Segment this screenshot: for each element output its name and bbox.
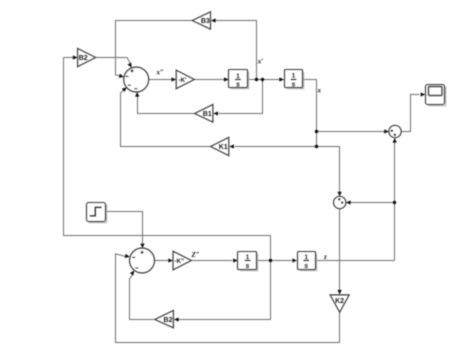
wire integrator I4 output z to the right: [315, 260, 394, 262]
wire gain B2 output to sum S1 top port: [96, 58, 131, 64]
gain B1: [195, 105, 213, 123]
wire B1 output to sum S1 bottom port: [138, 96, 195, 114]
arrowhead into lower gain B2: [174, 317, 179, 321]
arrowhead into gain B1: [213, 111, 218, 115]
sum S1 (upper large sum): [124, 67, 149, 92]
wire sum S3 output to scope: [401, 95, 419, 132]
wire sum S2 output to gain -K'': [155, 260, 169, 262]
arrowhead into sum S2 bottom-left port: [130, 269, 136, 275]
gain B3: [192, 12, 210, 29]
arrowhead into gain B3: [211, 18, 216, 22]
svg-text:1: 1: [304, 254, 308, 261]
sum S4 (small sum lower right): [334, 196, 346, 208]
svg-text:x′: x′: [257, 58, 264, 66]
gain B2 lower: [155, 310, 174, 327]
svg-text:-K': -K': [179, 78, 187, 84]
svg-text:B2: B2: [79, 55, 88, 62]
arrowhead into gain K2: [337, 290, 341, 295]
arrowhead into sum S2 left port: [125, 254, 131, 259]
arrowhead into integrator I3: [233, 258, 238, 262]
svg-text:x″: x″: [156, 69, 165, 77]
wire integrator I3 to integrator I4: [257, 260, 291, 262]
wire B3 output down to sum S1 left port: [116, 21, 193, 76]
svg-text:x: x: [317, 87, 322, 95]
arrowhead into sum S1 top port: [127, 63, 133, 69]
wire integrator I1 to integrator I2: [247, 79, 279, 81]
wire integrator I2 output x: [303, 80, 317, 147]
junction node on x vertical (to S3): [315, 130, 318, 133]
arrowhead into gain B2 upper: [73, 55, 78, 59]
wire x to sum S4 top port: [317, 147, 340, 192]
wire step output to sum S2 top port: [106, 212, 143, 245]
sum S2 (lower large sum): [130, 248, 155, 273]
step source block: [87, 203, 107, 223]
arrowhead into sum S3 left port: [384, 129, 389, 133]
scope block: [426, 85, 446, 106]
wire x to sum S3 left port: [317, 131, 385, 133]
arrowhead into sum S4 top port: [337, 192, 341, 197]
arrowhead into sum S1 left port: [119, 74, 125, 79]
wire z up to sum S3 bottom port: [394, 143, 396, 261]
wire sum S1 output to gain -K': [149, 79, 172, 81]
svg-text:s: s: [292, 81, 296, 88]
integrator I2 (upper second 1/s): [285, 70, 304, 89]
integrator I1 (upper first 1/s): [229, 70, 249, 89]
arrowhead into gain K1: [229, 144, 234, 148]
wire z' junction down to lower B2: [178, 236, 270, 320]
svg-text:B2: B2: [164, 317, 173, 324]
arrowhead into scope: [421, 92, 426, 96]
arrowhead into sum S1 bottom-left port: [122, 86, 128, 92]
arrowhead into integrator I4: [292, 258, 297, 262]
junction node after I1 (B1 tap): [261, 78, 264, 81]
svg-text:K2: K2: [335, 298, 344, 305]
svg-text:1: 1: [236, 73, 240, 80]
junction node z' between lower integrators: [269, 259, 272, 262]
svg-text:1: 1: [246, 254, 250, 261]
wire sum S4 output down to K2: [339, 209, 341, 291]
arrowhead into sum S1 bottom port: [135, 92, 139, 97]
gain -K'' (lower): [173, 251, 191, 270]
arrowhead into gain -K': [172, 77, 177, 81]
arrowhead into sum S2 top port: [140, 244, 144, 249]
integrator I4 (lower second 1/s): [298, 252, 317, 271]
arrowhead into sum S3 bottom port: [393, 138, 397, 143]
svg-text:s: s: [236, 82, 240, 89]
wire lower B2 output to sum S2 bottom-left port: [130, 275, 155, 320]
svg-text:Z″: Z″: [191, 251, 200, 259]
gain -K' (upper): [176, 70, 194, 89]
svg-text:B1: B1: [203, 111, 212, 118]
wire gain -K' to integrator I1: [194, 79, 224, 81]
svg-text:-K”: -K”: [175, 259, 184, 265]
wire B1 feedback: node down, left to B1: [219, 80, 263, 114]
svg-text:1: 1: [292, 73, 296, 80]
wire K2 output feedback to sum S2 left port: [116, 254, 340, 343]
arrowhead into integrator I1: [224, 77, 229, 81]
wire gain -K'' to integrator I3: [191, 260, 232, 262]
svg-text:B3: B3: [201, 18, 210, 25]
gain B2 upper: [78, 48, 96, 66]
gain K2 (points down): [330, 295, 349, 312]
wire B3 feedback: node x' up, left to B3: [215, 21, 256, 80]
arrowhead into gain -K'': [168, 258, 173, 262]
integrator I3 (lower first 1/s): [238, 252, 258, 271]
arrowhead into integrator I2: [279, 77, 284, 81]
junction node on z vertical (to S4): [393, 201, 396, 204]
wire sum S4 right input from z line: [350, 202, 395, 204]
wire K1 output to sum S1 bottom-left port: [121, 90, 211, 146]
gain K1: [211, 137, 229, 155]
svg-text:K1: K1: [219, 144, 228, 151]
sum S3 (small sum near scope): [389, 125, 401, 137]
wire K1 input from node x: [235, 146, 317, 148]
svg-text:z: z: [323, 253, 327, 261]
junction node after I1 (x' tap): [255, 78, 258, 81]
wire into gain B2 upper: [64, 57, 74, 59]
svg-text:s: s: [246, 263, 250, 270]
wire feedback z' to upper B2 input (left vertical): [64, 58, 271, 236]
svg-text:s: s: [304, 263, 308, 270]
junction node on x vertical (to K1/S4): [315, 145, 318, 148]
arrowhead into sum S4 right port: [346, 200, 351, 204]
